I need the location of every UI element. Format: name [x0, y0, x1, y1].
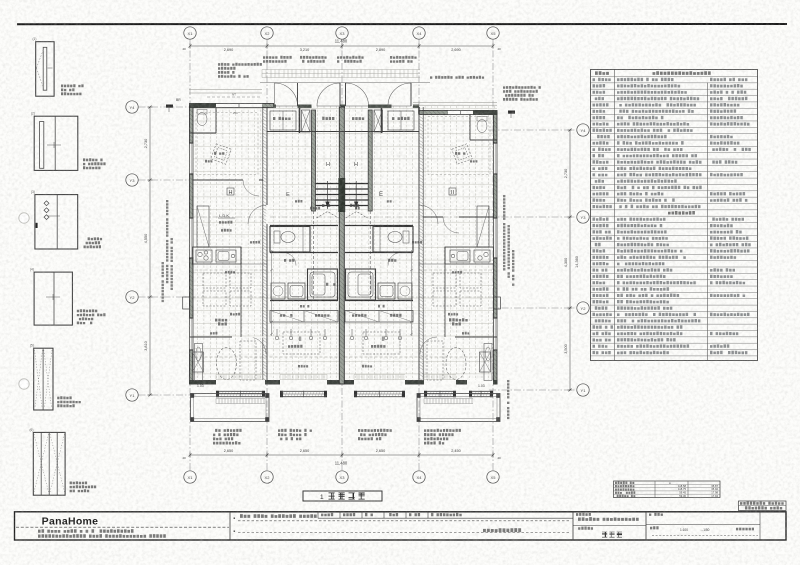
unit4 sink [450, 250, 470, 262]
unit4 door arc to hall [419, 205, 438, 224]
stair break dashed lines [317, 212, 339, 219]
right dimension line [569, 130, 571, 390]
terrace right [417, 394, 500, 422]
right lower rotated text [507, 380, 509, 419]
unit2 interior dim line [271, 250, 273, 336]
unit4 kitchen counter [445, 247, 494, 264]
entrance door arc unit1 [275, 83, 298, 106]
stair side wall right [368, 110, 372, 211]
title block date line [240, 514, 317, 518]
plan fine grid [191, 106, 494, 384]
stair UP label unit3 [350, 204, 359, 207]
unit2 toilet window [302, 227, 304, 253]
door detail 1 swing dashes [37, 50, 44, 87]
bottom wall window gaps [216, 380, 265, 385]
door detail 2 divider [54, 116, 56, 170]
stair side wall left [312, 110, 316, 211]
top wall dark segment [190, 103, 216, 108]
stair treads unit2 [316, 184, 340, 206]
unit2 toilet [274, 231, 280, 243]
entrance front wall segments [273, 105, 276, 108]
entry closet wall segments [299, 108, 301, 133]
title block divider right1 [572, 512, 574, 540]
PanaHome company lines [38, 529, 134, 533]
bottom dimension line [190, 454, 493, 456]
closet door detail 6 frame [33, 432, 65, 495]
top dimension line [190, 45, 493, 47]
bottom interior finish hatch [216, 375, 456, 380]
unit1 refrigerator box [197, 206, 209, 247]
door detail 4 divider [53, 272, 55, 325]
left dimension line [149, 107, 151, 395]
unit1 lower room oval table [217, 348, 237, 380]
title block divider right2 [645, 512, 647, 540]
unit4 bedroom partition [455, 336, 497, 338]
unit2 vanity [288, 283, 305, 299]
right wall window gaps [493, 143, 498, 174]
top wall step connector [418, 107, 420, 115]
unit1 top corner partition [215, 108, 217, 134]
unit1 side bay box [183, 297, 190, 309]
unit3 interior dim line [411, 250, 413, 336]
unit4 top room wall [423, 216, 443, 218]
door detail 1 text [61, 84, 84, 87]
plan annotation text above left [218, 63, 262, 66]
closet door detail 6 dividers [40, 432, 42, 495]
punch hole upper [19, 213, 29, 223]
spec table outer frame [591, 70, 758, 361]
bottom grid circles [184, 471, 196, 483]
unit1 kitchen counter [193, 247, 242, 264]
title block building label [483, 528, 521, 532]
unit4 partial walls [444, 247, 446, 264]
outer wall left [190, 106, 194, 384]
spec table column lines [614, 70, 616, 361]
right boundary rotated text [503, 195, 505, 271]
unit3 hall walls [345, 252, 413, 254]
closet labels [273, 117, 291, 120]
stair UP label unit2 [322, 204, 330, 207]
grid chain lines horizontal right [489, 129, 589, 131]
stair stringer unit2 with arrow [327, 181, 329, 209]
porch canopy line [260, 82, 430, 84]
plan annotation text above entrances [263, 56, 292, 59]
terrace deck bar left [216, 399, 265, 404]
unit1 lower left closet [193, 352, 204, 372]
sheet top border line [17, 23, 787, 25]
plan title box [303, 491, 382, 501]
entrance door detail 3 divider [56, 195, 58, 249]
entry closet shelf box left [270, 111, 296, 130]
unit3 dashed bed [363, 332, 400, 354]
folding door detail 5 frame [34, 348, 53, 410]
unit4 top corner partition [469, 115, 471, 141]
unit4 lower closet [480, 352, 491, 372]
unit1 corner toilet [197, 113, 207, 126]
unit4 sofa dashed [427, 341, 443, 380]
unit divider wall 1-2 [262, 107, 264, 380]
entrance door arc unit4 [388, 83, 411, 106]
unit4 dashed furniture [433, 273, 456, 288]
unit1 sink [216, 250, 236, 262]
area table texts [615, 481, 634, 484]
door detail 2 leaf [40, 122, 44, 169]
terrace left [191, 394, 270, 422]
window annotation blocks below plan [215, 429, 242, 432]
plan interior chain lines [190, 216, 498, 218]
plan annotation text above right [430, 76, 484, 79]
unit3 vanity [378, 283, 395, 299]
punch hole lower [19, 379, 29, 389]
unit4 bedroom door arc [420, 337, 437, 354]
eave lines over unit4 [413, 102, 497, 104]
door detail 4 handle [46, 296, 60, 298]
door detail 2 text [83, 158, 103, 161]
unit2 toilet room [270, 227, 310, 253]
left wall window gaps [189, 143, 194, 174]
entrance door arc unit3 [346, 83, 369, 106]
unit1 rotated dashed square [211, 144, 232, 165]
porch walkway hatch [262, 70, 420, 78]
unit2 bath [308, 269, 338, 300]
stair stringer unit3 with arrow [355, 181, 357, 209]
unit1 ceiling dashed inset [196, 113, 258, 175]
unit2 hall walls [270, 252, 338, 254]
title block scale texts [650, 526, 659, 529]
interior tiny dimension texts [250, 241, 260, 244]
unit4 lower room oval table [446, 348, 466, 380]
closet door detail 6 text [70, 481, 88, 484]
left setback tick [166, 105, 173, 108]
unit1 door arc to hall [248, 205, 267, 224]
bottom wall [190, 381, 498, 385]
unit2 closet band [270, 311, 338, 323]
unit2 washer [271, 283, 285, 299]
stair treads unit3 [344, 184, 368, 206]
door detail 2 frame [34, 116, 78, 170]
entrance door detail 3 handle [36, 223, 38, 228]
folding door detail 5 divider [42, 348, 44, 410]
vent stopper marks row [276, 329, 278, 336]
unit1 bedroom partition [190, 336, 233, 338]
unit1 dashed furniture [203, 273, 226, 288]
unit1 sofa dashed [240, 341, 256, 380]
folding door detail 5 text [57, 396, 72, 399]
entrance door detail 3 frame [35, 195, 78, 249]
door detail 4 text [77, 309, 98, 312]
door detail 1 leaf [43, 47, 47, 90]
unit divider wall 3-4 [418, 107, 420, 380]
title block header cells [317, 512, 319, 518]
plan interior dashed room lines [190, 356, 498, 358]
unit4 stove burners [474, 250, 490, 262]
right setback tick [508, 111, 515, 114]
unit1 LDK label lower [215, 319, 227, 322]
grid chain lines horizontal left [126, 106, 198, 108]
top grid circles [184, 27, 196, 39]
spec table row lines [591, 77, 758, 356]
entrance door detail 3 diamonds [44, 201, 49, 206]
entry closet shelf box right [388, 111, 414, 130]
title block project name cell [576, 513, 591, 516]
unit3 bath [346, 269, 376, 300]
entrance door arc unit2 [317, 83, 340, 106]
right grid circles [577, 124, 589, 136]
unit1 room label H [227, 188, 234, 195]
unit3 closet band [345, 311, 413, 323]
spec table title row [595, 71, 609, 75]
title block frame [15, 512, 787, 540]
left boundary rotated text [166, 200, 168, 283]
left grid circles [126, 101, 138, 113]
entry closet shoe hatch right [374, 110, 383, 132]
unit4 rotated dashed square [452, 144, 473, 165]
unit3 toilet door arc [388, 253, 401, 266]
unit4 tv board [484, 344, 492, 381]
bottom wall dark segments [190, 380, 217, 384]
grid chain lines vertical [189, 38, 191, 471]
drawing number box [739, 501, 787, 511]
spec table cell texts [593, 78, 611, 81]
closet band bottom wall [267, 131, 419, 133]
area table rows [614, 483, 721, 485]
entrance door detail 3 text [88, 237, 103, 240]
unit2 bath label [326, 283, 336, 286]
unit4 LDK label lower [449, 318, 468, 321]
area table frame [614, 481, 721, 498]
eave lines over unit1 [189, 89, 262, 91]
top wall right section stepped [419, 111, 497, 115]
folding door detail 5 fold dashes [35, 350, 53, 407]
unit3 washer [398, 283, 412, 299]
unit4 refrigerator box [477, 206, 489, 247]
unit2 toilet door arc [283, 253, 296, 266]
top wall left section [190, 104, 274, 108]
entry closet shoe hatch left [302, 110, 311, 132]
unit4 ceiling dashed inset [428, 117, 490, 175]
bottom window sills [216, 390, 265, 392]
unit3 washroom label [388, 259, 396, 262]
title block dashed rules [238, 520, 570, 522]
PanaHome dashed rule [16, 526, 229, 528]
unit1 bedroom door arc [249, 337, 266, 354]
central party wall dark overlap [338, 178, 345, 212]
central party wall [339, 107, 344, 384]
unit2 washroom label [284, 259, 294, 262]
unit3 toilet room [373, 227, 413, 253]
outer wall right [494, 112, 498, 384]
unit1 tv board [195, 344, 203, 381]
unit1 stove burners [196, 250, 212, 262]
unit1 top room wall [193, 179, 243, 181]
unit4 room label [449, 188, 456, 195]
unit4 corner toilet [477, 120, 487, 133]
title block name cell [649, 513, 663, 516]
unit3 toilet [403, 231, 409, 243]
door detail 2 handle [47, 144, 61, 146]
terrace corner posts [191, 417, 195, 421]
unit2 dashed bed [283, 332, 320, 354]
door detail 4 frame [34, 272, 72, 325]
unit4 side bay box [493, 297, 500, 309]
title block divider PanaHome [229, 512, 231, 540]
door detail 1 frame [36, 42, 54, 96]
unit1 NT dim line [207, 96, 262, 98]
unit1 partial walls [240, 247, 242, 264]
closet door detail 6 fold dashes [34, 434, 65, 492]
unit1 fridge label [221, 229, 232, 232]
terrace deck bar right [424, 399, 473, 404]
